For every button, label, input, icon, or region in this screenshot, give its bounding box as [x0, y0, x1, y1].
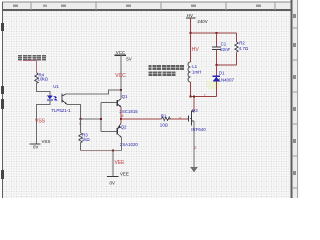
wire source down: [193, 121, 195, 167]
resistor R2: [235, 33, 249, 65]
wire drain up to bus: [193, 97, 195, 111]
svg-text:D1: D1: [219, 70, 225, 75]
yellow highlight patch: [206, 81, 220, 90]
svg-text:2SA1020: 2SA1020: [120, 142, 139, 147]
svg-text:VSS: VSS: [35, 118, 46, 124]
transistor Q1 (NPN): [117, 90, 138, 114]
wire drain bus: [191, 96, 217, 98]
wire R3 to VEE run: [80, 142, 82, 150]
svg-text:VSS: VSS: [42, 139, 51, 144]
svg-text:4.7Ω: 4.7Ω: [239, 46, 249, 51]
svg-text:1N4007: 1N4007: [219, 77, 235, 82]
svg-text:R2: R2: [239, 40, 245, 45]
svg-text:Q2: Q2: [121, 124, 127, 129]
wire opto emitter to base node: [67, 105, 101, 119]
svg-text:VEE: VEE: [120, 172, 129, 177]
ground arrow: [190, 167, 198, 173]
annotation: L1 inductive-load note line 2: [149, 71, 176, 76]
svg-text:R1: R1: [161, 114, 167, 119]
svg-text:VCC: VCC: [116, 50, 125, 55]
junction at VEE tap: [112, 149, 114, 151]
svg-text:HV: HV: [192, 47, 200, 53]
optocoupler U1 phototransistor: [62, 94, 67, 105]
junction VCC / Q1 collector: [120, 89, 122, 91]
wire node to R3: [80, 119, 82, 133]
power symbol VEE 0V: [107, 172, 129, 186]
wire HV down to top node: [190, 18, 192, 33]
svg-text:HV: HV: [187, 13, 193, 18]
optocoupler U1 LED: [47, 95, 57, 100]
svg-text:L1: L1: [192, 64, 197, 69]
wire top rail: [191, 32, 237, 34]
svg-text:TLP521-1: TLP521-1: [51, 108, 71, 113]
svg-text:Q1: Q1: [122, 94, 128, 99]
top ruler band: [2, 2, 292, 10]
base bus wire: [101, 102, 117, 131]
wire snubber bottom rail: [217, 64, 237, 66]
power symbol VSS 0V: [30, 139, 51, 150]
resistor R1: [162, 117, 171, 120]
junction at R3 top node: [80, 118, 82, 120]
annotation: L1 inductive-load note line 1: [149, 65, 185, 70]
svg-text:Q3: Q3: [192, 108, 198, 113]
wire VEE drop: [112, 150, 114, 176]
wire Q1 emitter to output node: [120, 107, 122, 119]
MOSFET Q3: [189, 108, 207, 132]
wire opto collector to VCC junction: [67, 90, 121, 94]
svg-text:5V: 5V: [126, 56, 131, 61]
junction drain tap: [193, 96, 195, 98]
wire R4 to LED anode: [37, 83, 50, 96]
wire output node to gate: [121, 118, 189, 120]
wire Q2 collector down: [121, 138, 123, 151]
junction snubber bottom: [216, 64, 218, 66]
svg-text:22nF: 22nF: [220, 47, 230, 52]
svg-text:0V: 0V: [33, 145, 38, 150]
svg-text:10Ω: 10Ω: [160, 122, 169, 127]
diode D1: [213, 65, 235, 97]
svg-text:1kΩ: 1kΩ: [82, 137, 91, 142]
wire MCU stub to R4: [23, 61, 37, 73]
junction base bus input: [100, 118, 102, 120]
resistor R3: [79, 133, 82, 143]
power symbol VCC 5V: [115, 50, 132, 61]
right ruler band: [292, 0, 298, 198]
junction C1 tap: [216, 32, 218, 34]
svg-text:10kΩ: 10kΩ: [38, 77, 49, 82]
inductor L1: [188, 33, 201, 97]
junction output node: [120, 118, 122, 120]
junction HV top node: [190, 32, 192, 34]
svg-text:0V: 0V: [110, 180, 115, 185]
wire LED cathode to VSS rail: [36, 100, 50, 144]
svg-text:C1: C1: [221, 41, 227, 46]
left sheet border: [2, 2, 4, 198]
svg-text:240V: 240V: [197, 19, 207, 24]
resistor R4: [35, 73, 38, 84]
transistor Q2 (PNP): [117, 119, 138, 147]
svg-text:U1: U1: [53, 84, 59, 89]
power symbol HV 240V: [186, 13, 208, 24]
sheet background: [0, 0, 300, 198]
wire VCC rail down: [120, 55, 122, 90]
annotation: connect-to-MCU-pin note: [18, 55, 46, 61]
svg-text:VEE: VEE: [115, 160, 126, 166]
svg-text:1mH: 1mH: [192, 70, 201, 75]
capacitor C1: [212, 33, 231, 65]
junction L1 bottom corner: [190, 96, 192, 98]
svg-text:VCC: VCC: [115, 73, 126, 79]
